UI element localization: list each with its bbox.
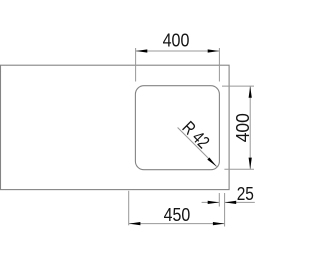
svg-text:25: 25 [237, 184, 254, 204]
svg-text:R 42: R 42 [178, 117, 213, 152]
svg-text:400: 400 [163, 31, 190, 51]
svg-text:450: 450 [164, 205, 191, 225]
svg-text:400: 400 [233, 113, 253, 142]
